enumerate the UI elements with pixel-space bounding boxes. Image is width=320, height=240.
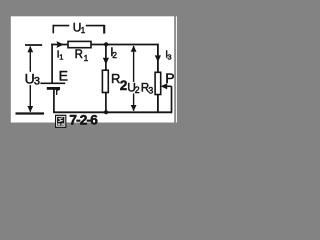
label E: [59, 68, 68, 84]
label U2: [127, 81, 140, 95]
label r: [57, 89, 60, 95]
wire middle branch lower: [105, 92, 107, 112]
svg-text:1: 1: [84, 54, 89, 63]
U3 dimension arrow (terminal voltage): [16, 45, 45, 114]
wire left branch lower (battery to bottom rail): [53, 89, 55, 112]
current arrow I2: [103, 58, 109, 65]
label P: [165, 70, 174, 86]
battery E r: [40, 83, 65, 88]
resistor R1: [68, 41, 91, 47]
svg-text:E: E: [59, 68, 68, 84]
svg-text:3: 3: [34, 76, 40, 88]
svg-text:2: 2: [135, 85, 140, 95]
U1 bracket (voltage across R1): [53, 25, 104, 34]
wire left branch (top corner down to battery): [51, 44, 53, 83]
resistor R3 (rheostat): [155, 72, 161, 94]
label R1: [75, 49, 89, 63]
wire right branch lower: [157, 95, 159, 113]
current arrow I3: [155, 55, 161, 62]
label R3: [141, 83, 153, 96]
svg-text:1: 1: [59, 52, 63, 61]
figure caption 图7-2-6: [55, 111, 98, 127]
wire middle branch upper: [105, 45, 107, 71]
svg-text:2: 2: [112, 50, 117, 60]
label I1: [57, 49, 64, 62]
svg-text:R: R: [75, 49, 83, 61]
wire right branch upper: [157, 44, 159, 73]
label U3: [24, 71, 40, 88]
U2 dimension arrow (voltage across R2): [131, 46, 137, 112]
junction node A (top): [104, 42, 108, 46]
svg-text:1: 1: [81, 26, 86, 35]
resistor R2: [102, 70, 108, 92]
svg-text:7-2-6: 7-2-6: [69, 111, 98, 127]
junction node B (bottom): [104, 110, 108, 114]
wire bottom rail: [53, 111, 172, 113]
svg-text:P: P: [165, 70, 174, 86]
label I2: [110, 45, 117, 60]
wire slider to bottom rail: [171, 86, 173, 112]
rheostat slider arrow P: [161, 83, 172, 89]
current arrow I1: [56, 41, 64, 48]
wire top rail: [51, 44, 158, 46]
svg-text:3: 3: [148, 86, 153, 96]
svg-text:3: 3: [167, 53, 171, 62]
label I3: [165, 50, 171, 62]
label R2: [111, 71, 128, 93]
label U1: [73, 20, 86, 35]
